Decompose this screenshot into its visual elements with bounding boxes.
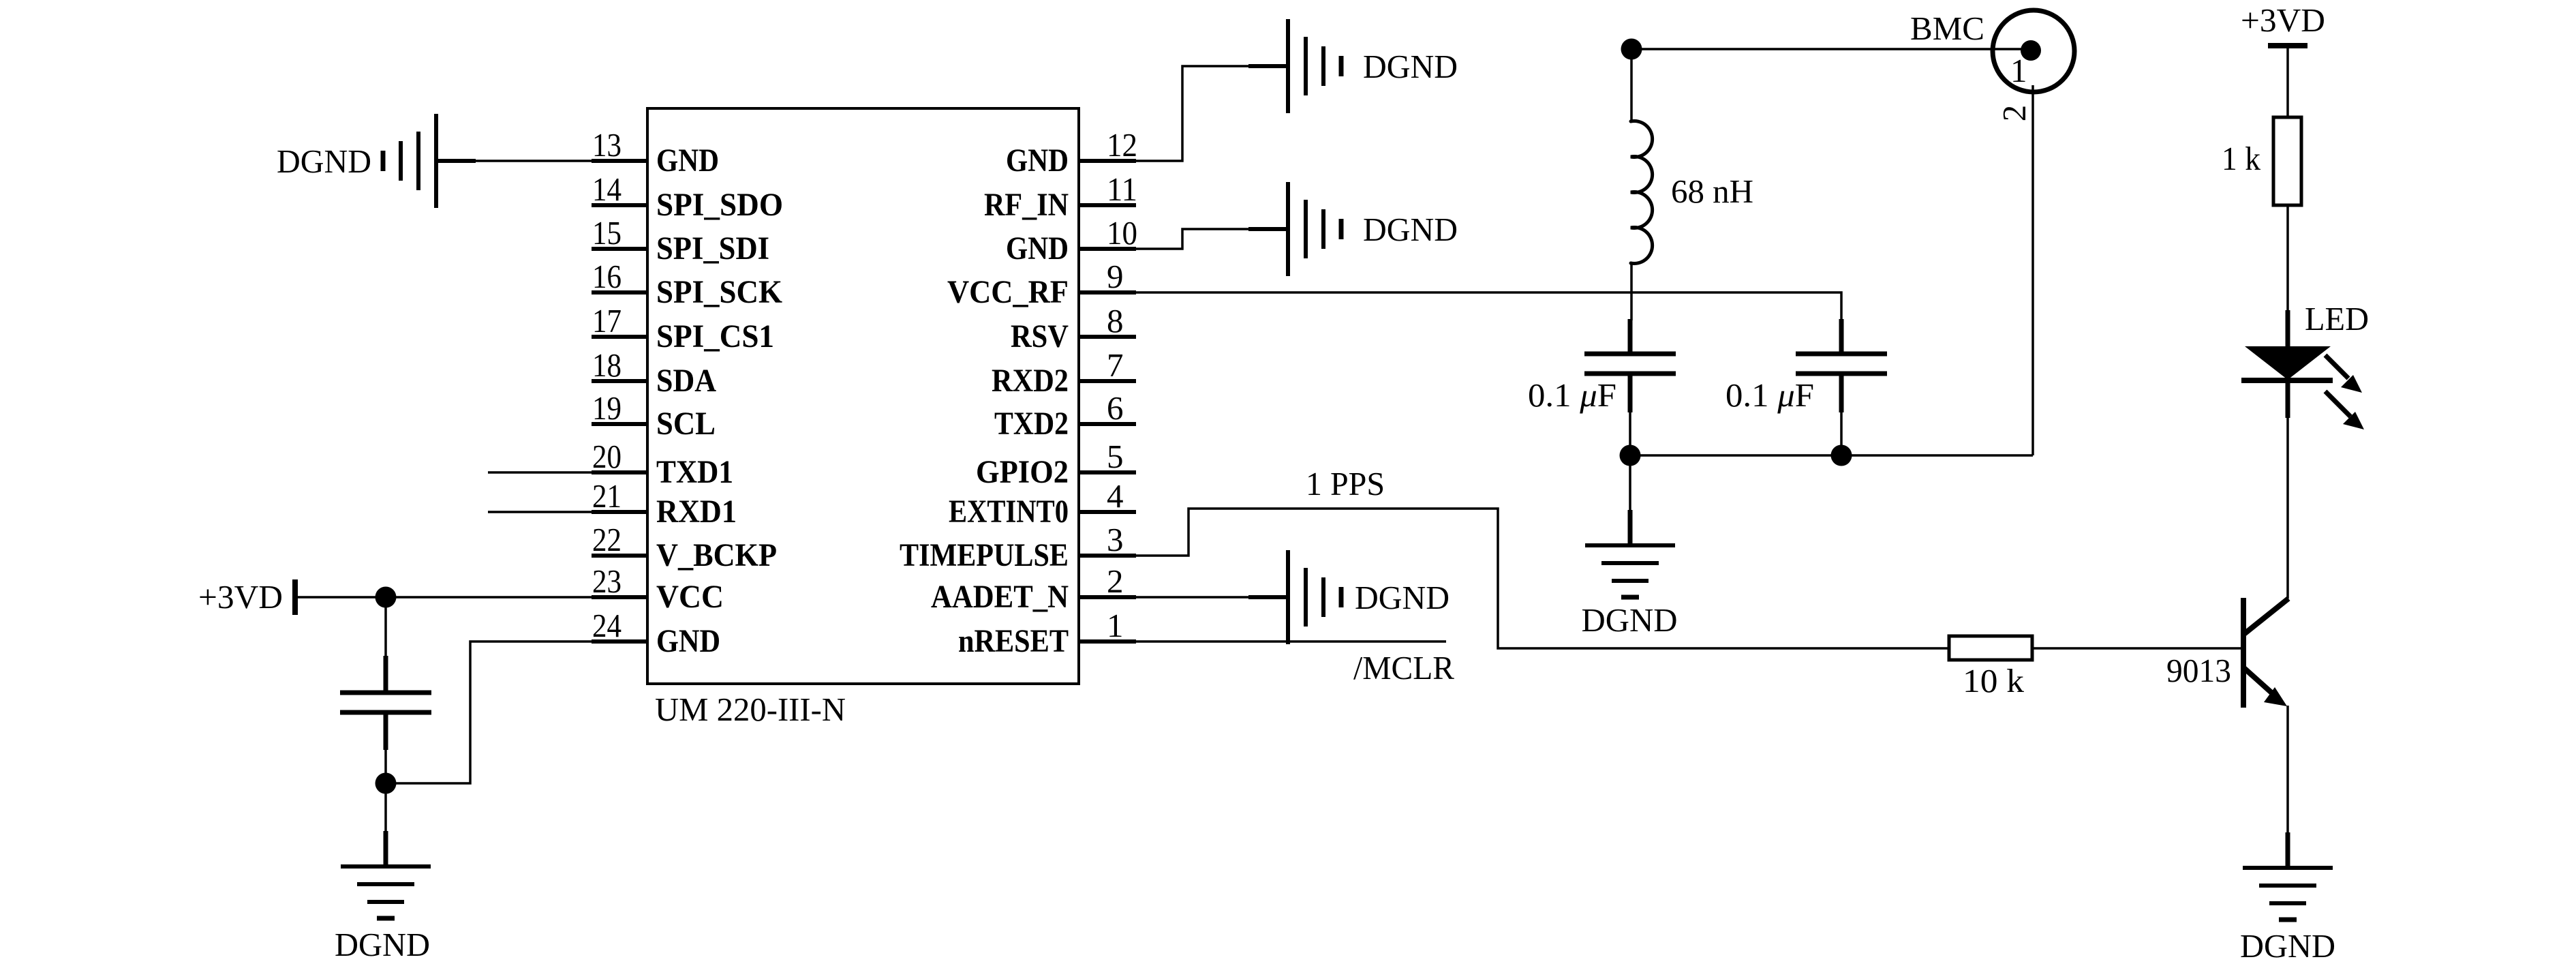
junction node below C3	[375, 773, 397, 794]
svg-text:5: 5	[1107, 438, 1124, 475]
pin 14 stub (SPI_SDO)	[592, 203, 647, 207]
svg-text:SPI_SDO: SPI_SDO	[656, 187, 783, 223]
svg-text:19: 19	[592, 389, 622, 427]
svg-text:2: 2	[1107, 562, 1124, 600]
pin 24 stub (GND)	[592, 639, 647, 644]
svg-text:GND: GND	[1006, 230, 1069, 267]
svg-text:11: 11	[1107, 170, 1137, 208]
wire junction to GND pin 24	[386, 642, 592, 783]
pin 17 stub (SPI_CS1)	[592, 335, 647, 339]
svg-text:TXD1: TXD1	[656, 454, 733, 490]
svg-text:23: 23	[592, 562, 622, 600]
svg-text:4: 4	[1107, 477, 1124, 515]
svg-text:1: 1	[2010, 52, 2027, 89]
svg-text:9: 9	[1107, 258, 1124, 295]
svg-text:RXD2: RXD2	[992, 363, 1069, 399]
LED D1 triangle	[2245, 346, 2331, 380]
pin 15 stub (SPI_SDI)	[592, 247, 647, 251]
pin 20 stub (TXD1)	[592, 470, 647, 474]
connector BMC center pin	[2021, 40, 2041, 61]
ground symbol DGND G1 (pin 12)	[1248, 19, 1341, 113]
pin 5 stub (GPIO2)	[1079, 470, 1136, 474]
inductor L1 68 nH	[1630, 49, 1633, 121]
svg-text:DGND: DGND	[1363, 48, 1458, 85]
pin 6 stub (TXD2)	[1079, 422, 1136, 426]
svg-text:10: 10	[1107, 214, 1137, 252]
pin 4 stub (EXTINT0)	[1079, 510, 1136, 514]
wire pin 2 to ground G3	[1136, 596, 1250, 599]
LED emission arrow 1	[2325, 355, 2362, 393]
svg-text:7: 7	[1107, 346, 1124, 384]
IC U1 UM 220-III-N body	[647, 108, 1079, 684]
capacitor C2 0.1 uF	[1796, 319, 1887, 412]
pin 22 stub (V_BCKP)	[592, 554, 647, 558]
svg-text:10 k: 10 k	[1963, 662, 2025, 699]
wire ground rail C1-C2-BMC	[1630, 454, 2033, 457]
pin 18 stub (SDA)	[592, 379, 647, 383]
junction node inductor top	[1621, 39, 1642, 60]
svg-text:0.1 μF: 0.1 μF	[1528, 376, 1616, 414]
svg-text:nRESET: nRESET	[958, 623, 1069, 659]
transistor Q1 base bar	[2241, 598, 2246, 708]
svg-text:TIMEPULSE: TIMEPULSE	[900, 537, 1069, 573]
svg-text:RSV: RSV	[1011, 318, 1069, 354]
svg-text:DGND: DGND	[277, 142, 371, 180]
power terminal +3VD (right)	[2268, 43, 2307, 48]
svg-text:VCC_RF: VCC_RF	[947, 274, 1069, 310]
wire C2 bottom to junction	[1840, 412, 1843, 455]
wire emitter down to ground	[2286, 706, 2289, 833]
LED emission arrow 2	[2325, 391, 2364, 429]
svg-text:20: 20	[592, 438, 622, 475]
svg-text:8: 8	[1107, 302, 1124, 339]
pin 8 stub (RSV)	[1079, 335, 1136, 339]
pin 3 stub (TIMEPULSE)	[1079, 554, 1136, 558]
svg-text:1: 1	[1107, 607, 1124, 644]
wire pin 10 to ground G2	[1136, 229, 1248, 249]
svg-text:15: 15	[592, 214, 622, 252]
svg-text:9013: 9013	[2166, 652, 2231, 689]
pin 21 stub (RXD1)	[592, 510, 647, 514]
wire RXD1 (pin 21)	[488, 511, 593, 513]
svg-text:+3VD: +3VD	[2241, 1, 2325, 39]
transistor Q1 emitter diagonal	[2244, 668, 2277, 697]
ground symbol DGND (below C1)	[1585, 510, 1675, 597]
pin 23 stub (VCC)	[592, 595, 647, 599]
svg-text:SPI_CS1: SPI_CS1	[656, 318, 774, 354]
svg-text:SDA: SDA	[656, 363, 716, 399]
transistor Q1 emitter arrowhead	[2264, 687, 2287, 706]
wire C1 bottom to junction	[1629, 412, 1631, 455]
pin 10 stub (GND)	[1079, 247, 1136, 251]
wire junction down to capacitor C3	[384, 597, 387, 659]
ground symbol DGND (emitter)	[2243, 832, 2333, 920]
svg-text:TXD2: TXD2	[994, 406, 1069, 442]
junction node C1 bottom	[1620, 445, 1641, 466]
svg-text:1 PPS: 1 PPS	[1306, 465, 1385, 502]
pin 13 stub (GND)	[592, 159, 647, 163]
svg-text:18: 18	[592, 346, 622, 384]
wire inductor top to BMC pin 1	[1631, 48, 2023, 50]
wire +3VD to VCC pin 23	[298, 596, 592, 599]
svg-text:22: 22	[592, 521, 622, 558]
transistor Q1 collector diagonal	[2244, 599, 2288, 634]
svg-text:SPI_SCK: SPI_SCK	[656, 274, 782, 310]
svg-text:EXTINT0: EXTINT0	[949, 494, 1069, 530]
wire TIMEPULSE (pin 3) 1 PPS to resistor R2	[1136, 509, 1949, 648]
LED D1 anode lead	[2286, 310, 2290, 346]
capacitor C1 0.1 uF	[1584, 319, 1676, 412]
svg-text:GPIO2: GPIO2	[976, 454, 1069, 490]
wire inductor bottom through VCC_RF wire to capacitor C1	[1630, 263, 1633, 320]
ground symbol DGND G3 (pin 2)	[1248, 550, 1341, 644]
pin 9 stub (VCC_RF)	[1079, 290, 1136, 295]
capacitor C3 (VCC decoupling)	[340, 656, 431, 750]
pin 7 stub (RXD2)	[1079, 379, 1136, 383]
svg-text:DGND: DGND	[1582, 601, 1678, 639]
wire junction down to ground	[384, 783, 387, 833]
junction node at VCC wire	[375, 587, 397, 608]
svg-text:24: 24	[592, 607, 622, 644]
pin 16 stub (SPI_SCK)	[592, 290, 647, 295]
svg-text:VCC: VCC	[656, 579, 724, 615]
pin 1 stub (nRESET)	[1079, 639, 1136, 644]
wire BMC pin 2 down to ground rail	[2031, 85, 2034, 455]
svg-text:DGND: DGND	[1363, 211, 1458, 248]
wire capacitor C3 to lower junction	[384, 750, 387, 783]
LED D1 cathode bar	[2241, 378, 2333, 383]
svg-text:AADET_N: AADET_N	[931, 579, 1069, 615]
ground symbol DGND (pin 13)	[383, 114, 476, 208]
svg-text:21: 21	[592, 477, 622, 515]
power terminal +3VD (left)	[292, 579, 298, 615]
svg-text:0.1 μF: 0.1 μF	[1726, 376, 1814, 414]
pin 11 stub (RF_IN)	[1079, 203, 1136, 207]
svg-text:13: 13	[592, 126, 622, 164]
svg-text:SCL: SCL	[656, 406, 716, 442]
svg-text:DGND: DGND	[335, 926, 430, 963]
svg-text:GND: GND	[1006, 142, 1069, 179]
svg-text:14: 14	[592, 170, 622, 208]
svg-text:17: 17	[592, 302, 622, 339]
wire R2 to transistor base	[2032, 647, 2241, 650]
svg-text:+3VD: +3VD	[198, 578, 283, 616]
svg-text:16: 16	[592, 258, 622, 295]
LED D1 cathode lead	[2286, 383, 2290, 418]
svg-text:6: 6	[1107, 389, 1124, 427]
svg-text:/MCLR: /MCLR	[1353, 649, 1454, 686]
svg-text:2: 2	[1995, 105, 2033, 122]
svg-text:RXD1: RXD1	[656, 494, 737, 530]
svg-text:SPI_SDI: SPI_SDI	[656, 230, 769, 267]
resistor R2 10 k	[1949, 636, 2032, 660]
svg-text:LED: LED	[2305, 300, 2369, 337]
connector BMC outer circle	[1993, 10, 2074, 92]
ground symbol DGND (bottom left)	[341, 831, 431, 918]
wire pin 12 to ground G1	[1136, 66, 1248, 161]
wire pin13 ground to pin 13	[436, 160, 592, 162]
junction node C2 bottom	[1831, 445, 1852, 466]
svg-text:V_BCKP: V_BCKP	[656, 537, 777, 573]
svg-text:68 nH: 68 nH	[1671, 172, 1753, 210]
wire C1 junction down to ground	[1629, 455, 1631, 511]
ground symbol DGND G2 (pin 10)	[1248, 182, 1341, 276]
pin 19 stub (SCL)	[592, 422, 647, 426]
svg-text:RF_IN: RF_IN	[984, 187, 1069, 223]
wire TXD1 (pin 20)	[488, 471, 593, 474]
pin 12 stub (GND)	[1079, 159, 1136, 163]
wire collector up to LED	[2286, 417, 2289, 599]
svg-text:DGND: DGND	[1355, 579, 1450, 616]
svg-text:GND: GND	[656, 142, 719, 179]
svg-text:3: 3	[1107, 521, 1124, 558]
wire nRESET (pin 1) to /MCLR	[1136, 640, 1446, 643]
svg-text:GND: GND	[656, 623, 720, 659]
wire VCC_RF (pin 9) to capacitor C2	[1136, 292, 1841, 320]
pin 2 stub (AADET_N)	[1079, 595, 1136, 599]
resistor R1 1 k	[2273, 117, 2301, 205]
svg-text:DGND: DGND	[2240, 927, 2335, 965]
wire +3VD to resistor R1	[2286, 46, 2289, 117]
svg-text:1 k: 1 k	[2222, 140, 2260, 177]
svg-text:BMC: BMC	[1910, 10, 1984, 47]
svg-text:UM 220-III-N: UM 220-III-N	[655, 691, 846, 728]
wire R1 to LED	[2286, 205, 2289, 314]
svg-text:12: 12	[1107, 126, 1137, 164]
